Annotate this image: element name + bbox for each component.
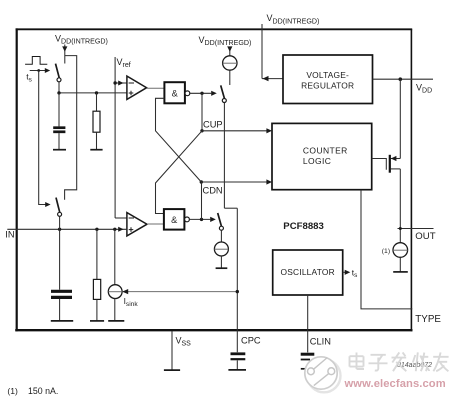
oscillator U3 xyxy=(273,250,343,295)
node VDD rail junction xyxy=(399,77,403,81)
svg-text:(1): (1) xyxy=(7,386,18,396)
wire A1 output xyxy=(147,87,165,89)
svg-text:COUNTER: COUNTER xyxy=(303,145,348,155)
wire cross-coupling CUP to G2 xyxy=(156,131,203,214)
transistor Q1 output PMOS xyxy=(372,155,401,173)
capacitor C1 xyxy=(53,93,66,150)
wire oscillator ts output arrow xyxy=(343,267,358,279)
capacitor C2 xyxy=(51,229,73,321)
wire Vref to comparator A2 xyxy=(115,217,127,219)
svg-text:IN: IN xyxy=(5,229,14,239)
svg-text:OSCILLATOR: OSCILLATOR xyxy=(281,267,335,277)
svg-text:Vref: Vref xyxy=(117,57,131,69)
nand gate G1 xyxy=(164,82,189,103)
svg-text:PCF8883: PCF8883 xyxy=(283,221,324,232)
svg-text:VDD(INTREGD): VDD(INTREGD) xyxy=(267,13,320,25)
counter logic U2 xyxy=(272,123,372,189)
net VDD(INTREGD) top entry xyxy=(262,13,319,78)
switch S3 charge xyxy=(221,85,238,208)
svg-text:LOGIC: LOGIC xyxy=(303,156,331,166)
pulse symbol ts xyxy=(25,57,50,84)
node CUP xyxy=(200,119,272,133)
svg-text:www.elecfans.com: www.elecfans.com xyxy=(344,378,446,390)
wire TYPE feed xyxy=(361,190,412,309)
wire rail from Q1 source down to OUT xyxy=(399,169,401,243)
svg-text:CDN: CDN xyxy=(203,186,223,196)
svg-text:VDD(INTREGD): VDD(INTREGD) xyxy=(199,35,252,47)
switch S4 discharge xyxy=(218,213,224,242)
svg-text:(1): (1) xyxy=(382,248,390,255)
svg-text:OUT: OUT xyxy=(415,231,435,242)
wire cross-coupling CDN to G1 xyxy=(156,98,202,182)
net VDD(INTREGD) upper-left xyxy=(55,33,108,63)
svg-text:&: & xyxy=(172,89,178,99)
svg-text:CUP: CUP xyxy=(203,119,223,129)
svg-text:CPC: CPC xyxy=(241,336,261,346)
svg-text:ts: ts xyxy=(26,72,32,84)
svg-text:VOLTAGE-: VOLTAGE- xyxy=(306,70,349,80)
net Vref xyxy=(115,57,131,218)
capacitor C3 at CPC xyxy=(228,354,246,370)
resistor R1 xyxy=(90,93,102,150)
wire oscillator to CLIN xyxy=(307,295,309,352)
pin VDD xyxy=(373,79,434,94)
wire branch to lower switch terminal xyxy=(65,56,77,200)
wire G1 output to node CUP xyxy=(190,91,217,131)
wire ts control down to lower switch xyxy=(39,71,51,208)
wire A2 output xyxy=(147,223,164,225)
svg-text:TYPE: TYPE xyxy=(415,314,441,325)
current source I1 (1) at OUT xyxy=(382,243,408,272)
pin IN xyxy=(5,227,127,240)
svg-text:Isink: Isink xyxy=(124,296,139,308)
switch S2 lower-left xyxy=(56,198,62,230)
pin CPC xyxy=(237,208,261,352)
svg-text:ts: ts xyxy=(352,267,358,279)
op-amp A1 upper comparator xyxy=(127,76,147,99)
wire regulator output to internal rail with left arrow xyxy=(262,76,283,81)
ground bar VSS xyxy=(164,369,180,371)
footnote (1) 150 nA xyxy=(7,386,58,396)
chip boundary box xyxy=(15,28,412,331)
svg-text:&: & xyxy=(171,215,177,225)
svg-text:VDD(INTREGD): VDD(INTREGD) xyxy=(55,33,108,45)
ground bar below I3 xyxy=(216,267,228,269)
svg-text:CLIN: CLIN xyxy=(310,337,331,347)
current source I2 charge xyxy=(199,35,252,85)
wire Vref to comparator A1 xyxy=(113,81,127,86)
wire sense line xyxy=(57,91,127,94)
resistor R2 xyxy=(90,229,104,321)
svg-text:VSS: VSS xyxy=(176,335,192,347)
voltage regulator U1 xyxy=(283,55,373,104)
svg-text:150 nA.: 150 nA. xyxy=(28,386,58,396)
node CDN xyxy=(200,179,272,195)
op-amp A2 lower comparator xyxy=(127,213,147,236)
wire internal VDD rail xyxy=(399,79,401,158)
wire G2 output to node CDN xyxy=(189,182,215,222)
switch S1 upper-left xyxy=(56,64,62,93)
svg-text:VDD: VDD xyxy=(416,82,432,94)
wire Isink control from CPC node xyxy=(122,289,239,294)
current source I4 Isink xyxy=(108,229,138,320)
current source I3 discharge xyxy=(214,242,228,268)
pin VSS xyxy=(172,331,191,370)
nand gate G2 xyxy=(164,209,190,230)
pin OUT xyxy=(398,227,436,242)
ground bar below I4 xyxy=(108,320,124,322)
ground bar below I1 xyxy=(393,271,408,273)
capacitor C4 at CLIN xyxy=(301,354,315,369)
svg-text:REGULATOR: REGULATOR xyxy=(301,80,354,90)
